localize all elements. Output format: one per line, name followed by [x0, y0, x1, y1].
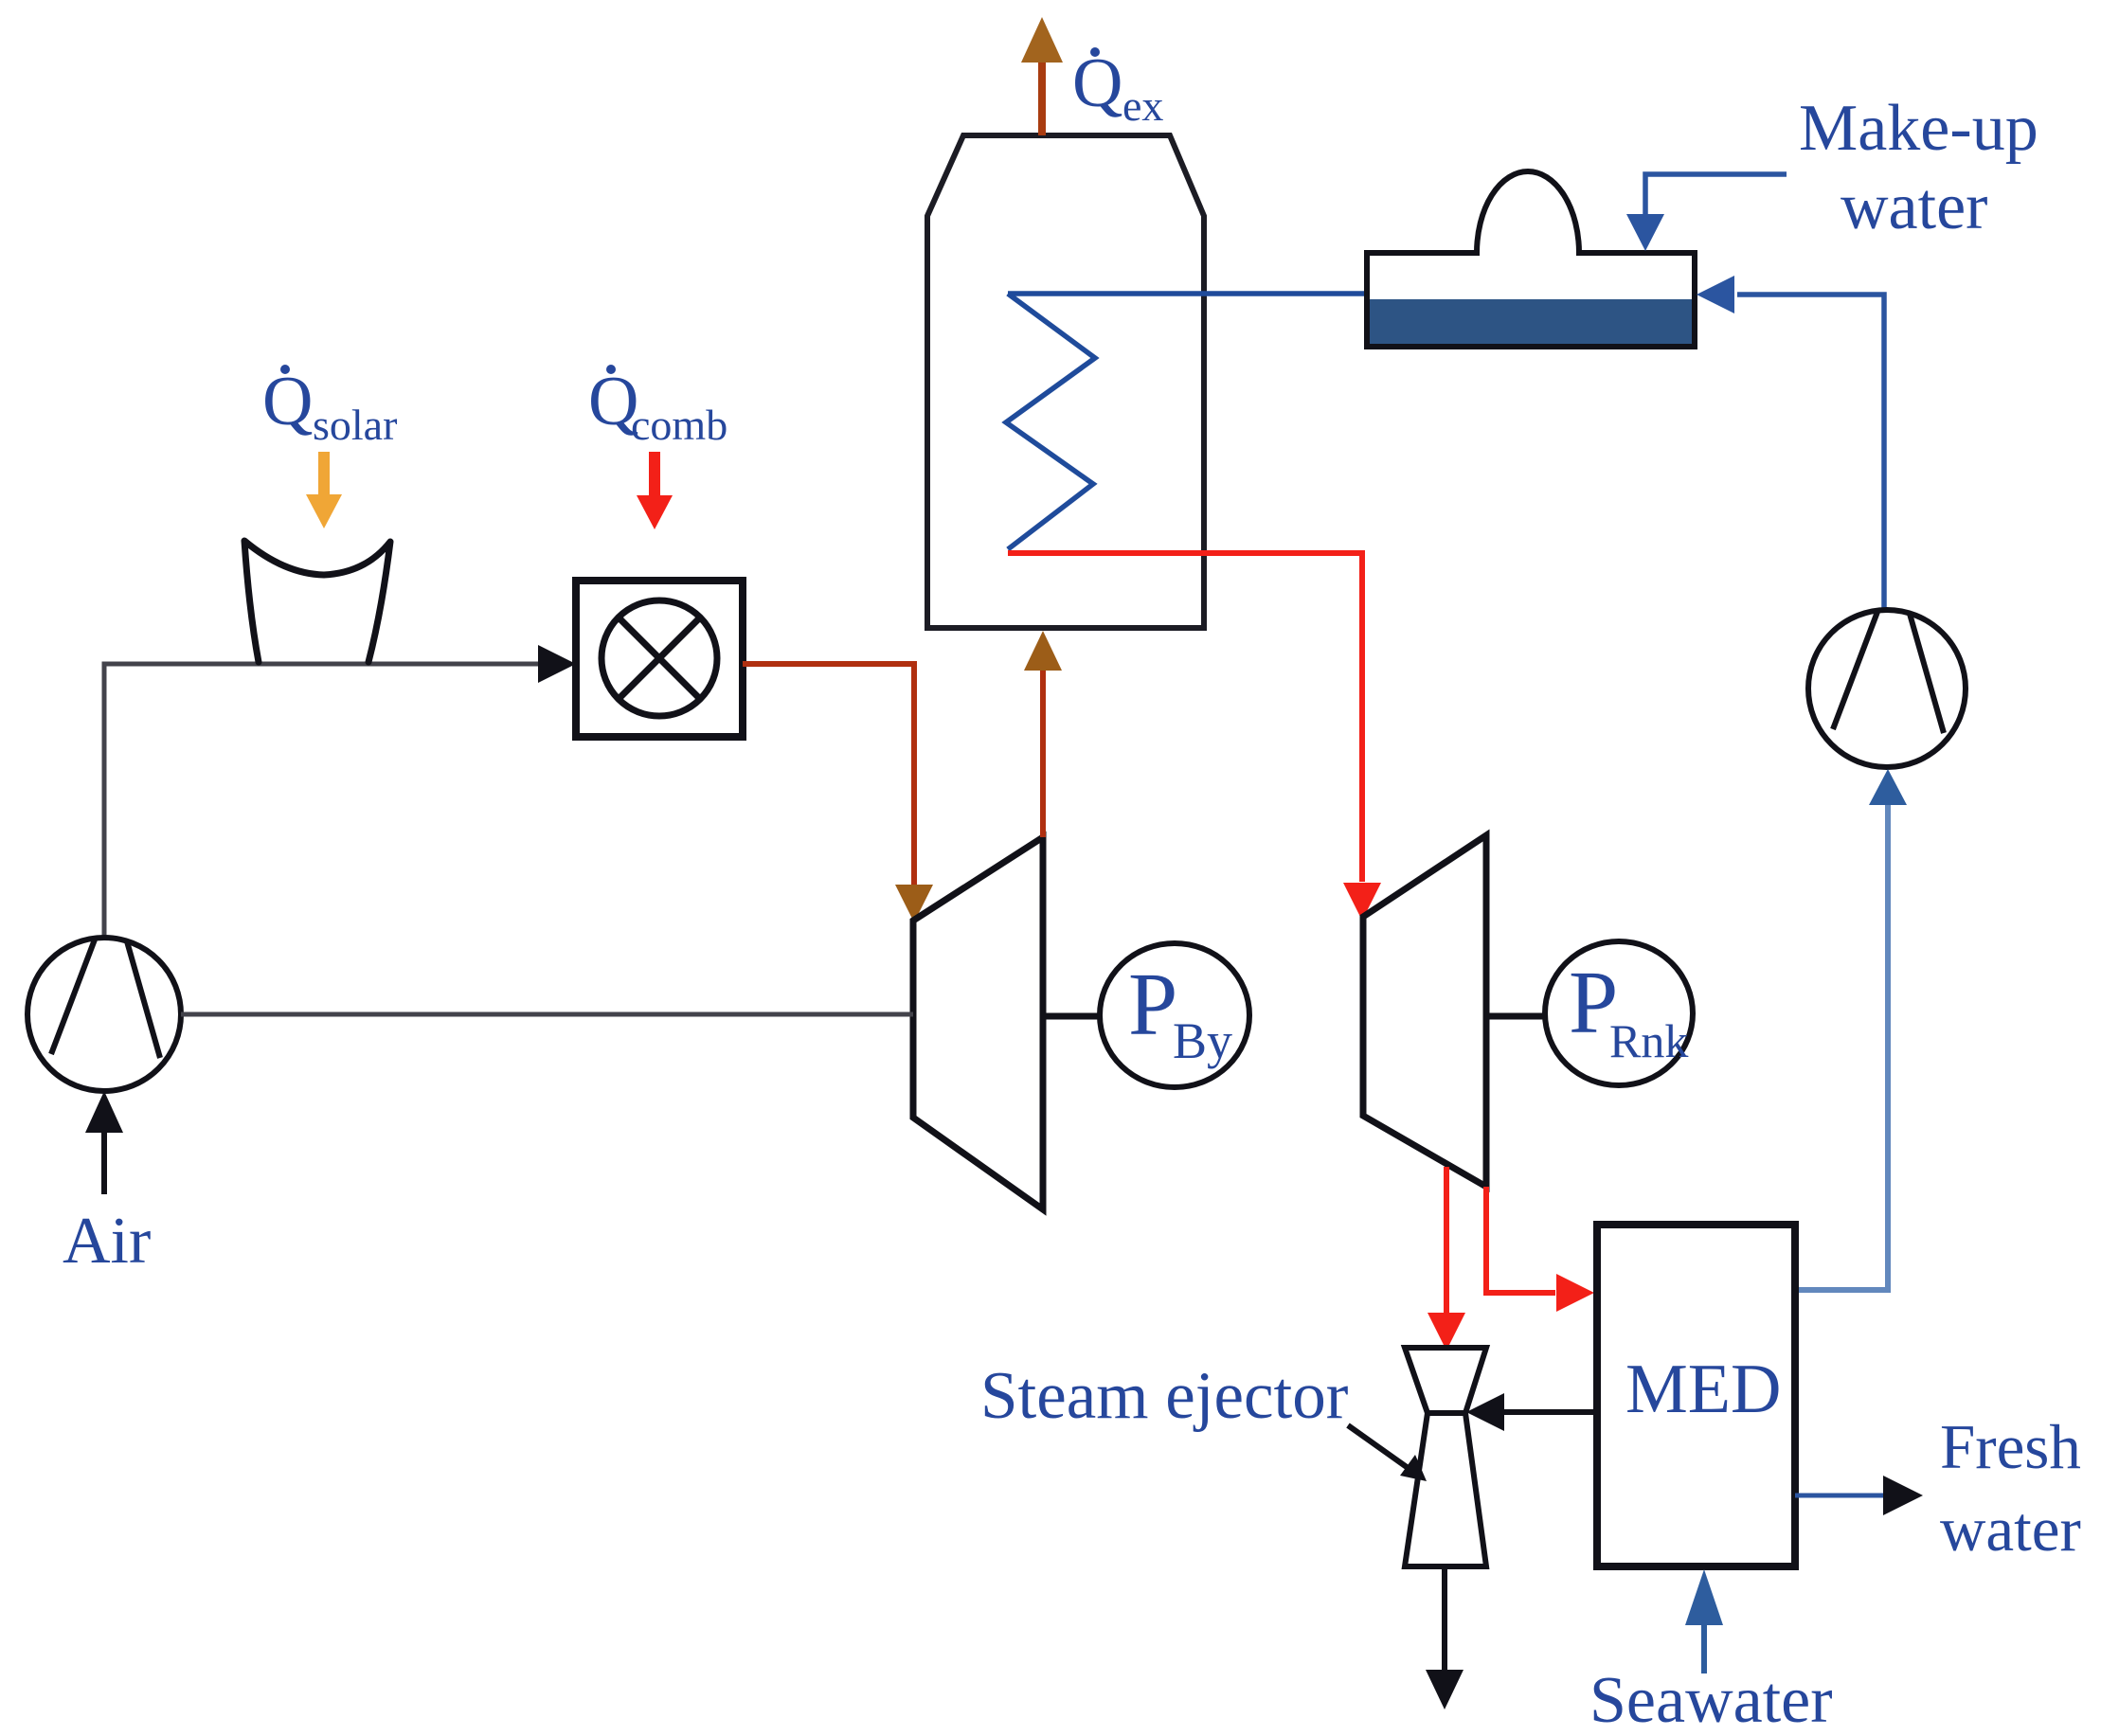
Seawater label [1589, 1664, 1833, 1736]
condenser drum [1367, 171, 1695, 347]
svg-text:water: water [1841, 170, 1987, 243]
svg-text:Rnk: Rnk [1609, 1014, 1688, 1067]
svg-text:Fresh: Fresh [1940, 1412, 2081, 1482]
air inlet arrow [85, 1091, 123, 1194]
Air label [63, 1205, 151, 1278]
generator P_By [1100, 943, 1249, 1087]
turbine T1 (Brayton) [913, 837, 1043, 1209]
wire: T2 exhaust to ejector (red) [1444, 1167, 1449, 1315]
steam ejector body [1405, 1348, 1486, 1566]
svg-text:Make-up: Make-up [1799, 92, 2038, 165]
MED unit box [1597, 1225, 1795, 1566]
svg-text:Steam ejector: Steam ejector [980, 1359, 1349, 1433]
wire: MED to ejector suction (black) [1502, 1409, 1597, 1415]
boiler coil (blue zigzag) [1006, 294, 1095, 549]
arrowhead fresh water (black) [1883, 1476, 1923, 1515]
wire: top gas line to combustor [102, 662, 543, 667]
wire: T1 exhaust to boiler (dark red riser) [1040, 670, 1046, 837]
Qsolar label [262, 363, 397, 449]
svg-text:comb: comb [631, 401, 727, 449]
Fresh water label [1940, 1412, 2081, 1565]
arrowhead into boiler bottom (brown) [1024, 631, 1062, 671]
wire: MED to pump (steel blue) [1795, 801, 1888, 1290]
Steam ejector label [980, 1359, 1349, 1433]
wire: compressor outlet up-left riser [102, 664, 107, 938]
ejector outlet stem + arrow [1426, 1566, 1464, 1709]
svg-text:ex: ex [1122, 81, 1163, 130]
svg-text:MED: MED [1625, 1351, 1781, 1428]
svg-text:Q: Q [262, 363, 313, 440]
turbine T2 (Rankine) [1363, 835, 1486, 1187]
shaft T1 [1043, 1013, 1101, 1020]
svg-text:Q: Q [1072, 45, 1122, 122]
wire: boiler coil to condenser (blue) [1008, 291, 1367, 296]
arrowhead into ejector top (red) [1428, 1313, 1465, 1351]
wire: make-up water (dark blue) [1645, 174, 1787, 216]
Qsolar arrow (orange) [306, 452, 342, 528]
Qex label [1072, 45, 1163, 130]
arrowhead into pump bottom [1869, 769, 1907, 805]
combustor box [576, 581, 743, 737]
svg-text:Air: Air [63, 1205, 151, 1278]
svg-text:By: By [1173, 1012, 1232, 1069]
generator P_Rnk [1545, 941, 1693, 1085]
arrowhead into ejector waist [1466, 1393, 1504, 1431]
wire: boiler coil outlet to turbine T2 (red) [1008, 553, 1362, 882]
solar receiver [244, 541, 390, 662]
svg-text:water: water [1940, 1494, 2081, 1565]
wire: pump to condenser (dark blue) [1737, 295, 1884, 610]
arrowhead into MED left (red) [1556, 1274, 1594, 1312]
air compressor [27, 938, 181, 1091]
svg-text:P: P [1128, 956, 1177, 1054]
wire: combustor to turbine T1 (dark red) [743, 664, 914, 885]
wire: MED fresh water out [1795, 1494, 1883, 1498]
Qcomb arrow (red) [637, 452, 673, 529]
Make-up water label [1799, 92, 2038, 243]
boiler vessel [927, 135, 1204, 628]
Qex arrow (brown, up) [1021, 17, 1063, 135]
Qcomb label [588, 363, 727, 449]
wire: T2 exhaust to MED (red) [1486, 1187, 1555, 1293]
combustor circle with X [602, 600, 717, 716]
wire: compressor to turbine T1 (air line) [181, 1012, 913, 1017]
label pointer line [1348, 1425, 1427, 1481]
arrowhead into T2 inlet (red) [1343, 883, 1381, 921]
arrowhead into drum right [1697, 276, 1734, 313]
shaft T2 [1486, 1013, 1545, 1020]
seawater inlet arrow [1685, 1569, 1723, 1673]
arrowhead make-up into drum [1626, 214, 1664, 251]
feed pump [1808, 610, 1966, 767]
svg-text:Seawater: Seawater [1589, 1664, 1833, 1736]
svg-text:solar: solar [313, 401, 397, 449]
arrowhead into combustor [538, 645, 576, 683]
MED label [1625, 1351, 1781, 1428]
arrowhead into T1 inlet (brown) [895, 885, 933, 922]
